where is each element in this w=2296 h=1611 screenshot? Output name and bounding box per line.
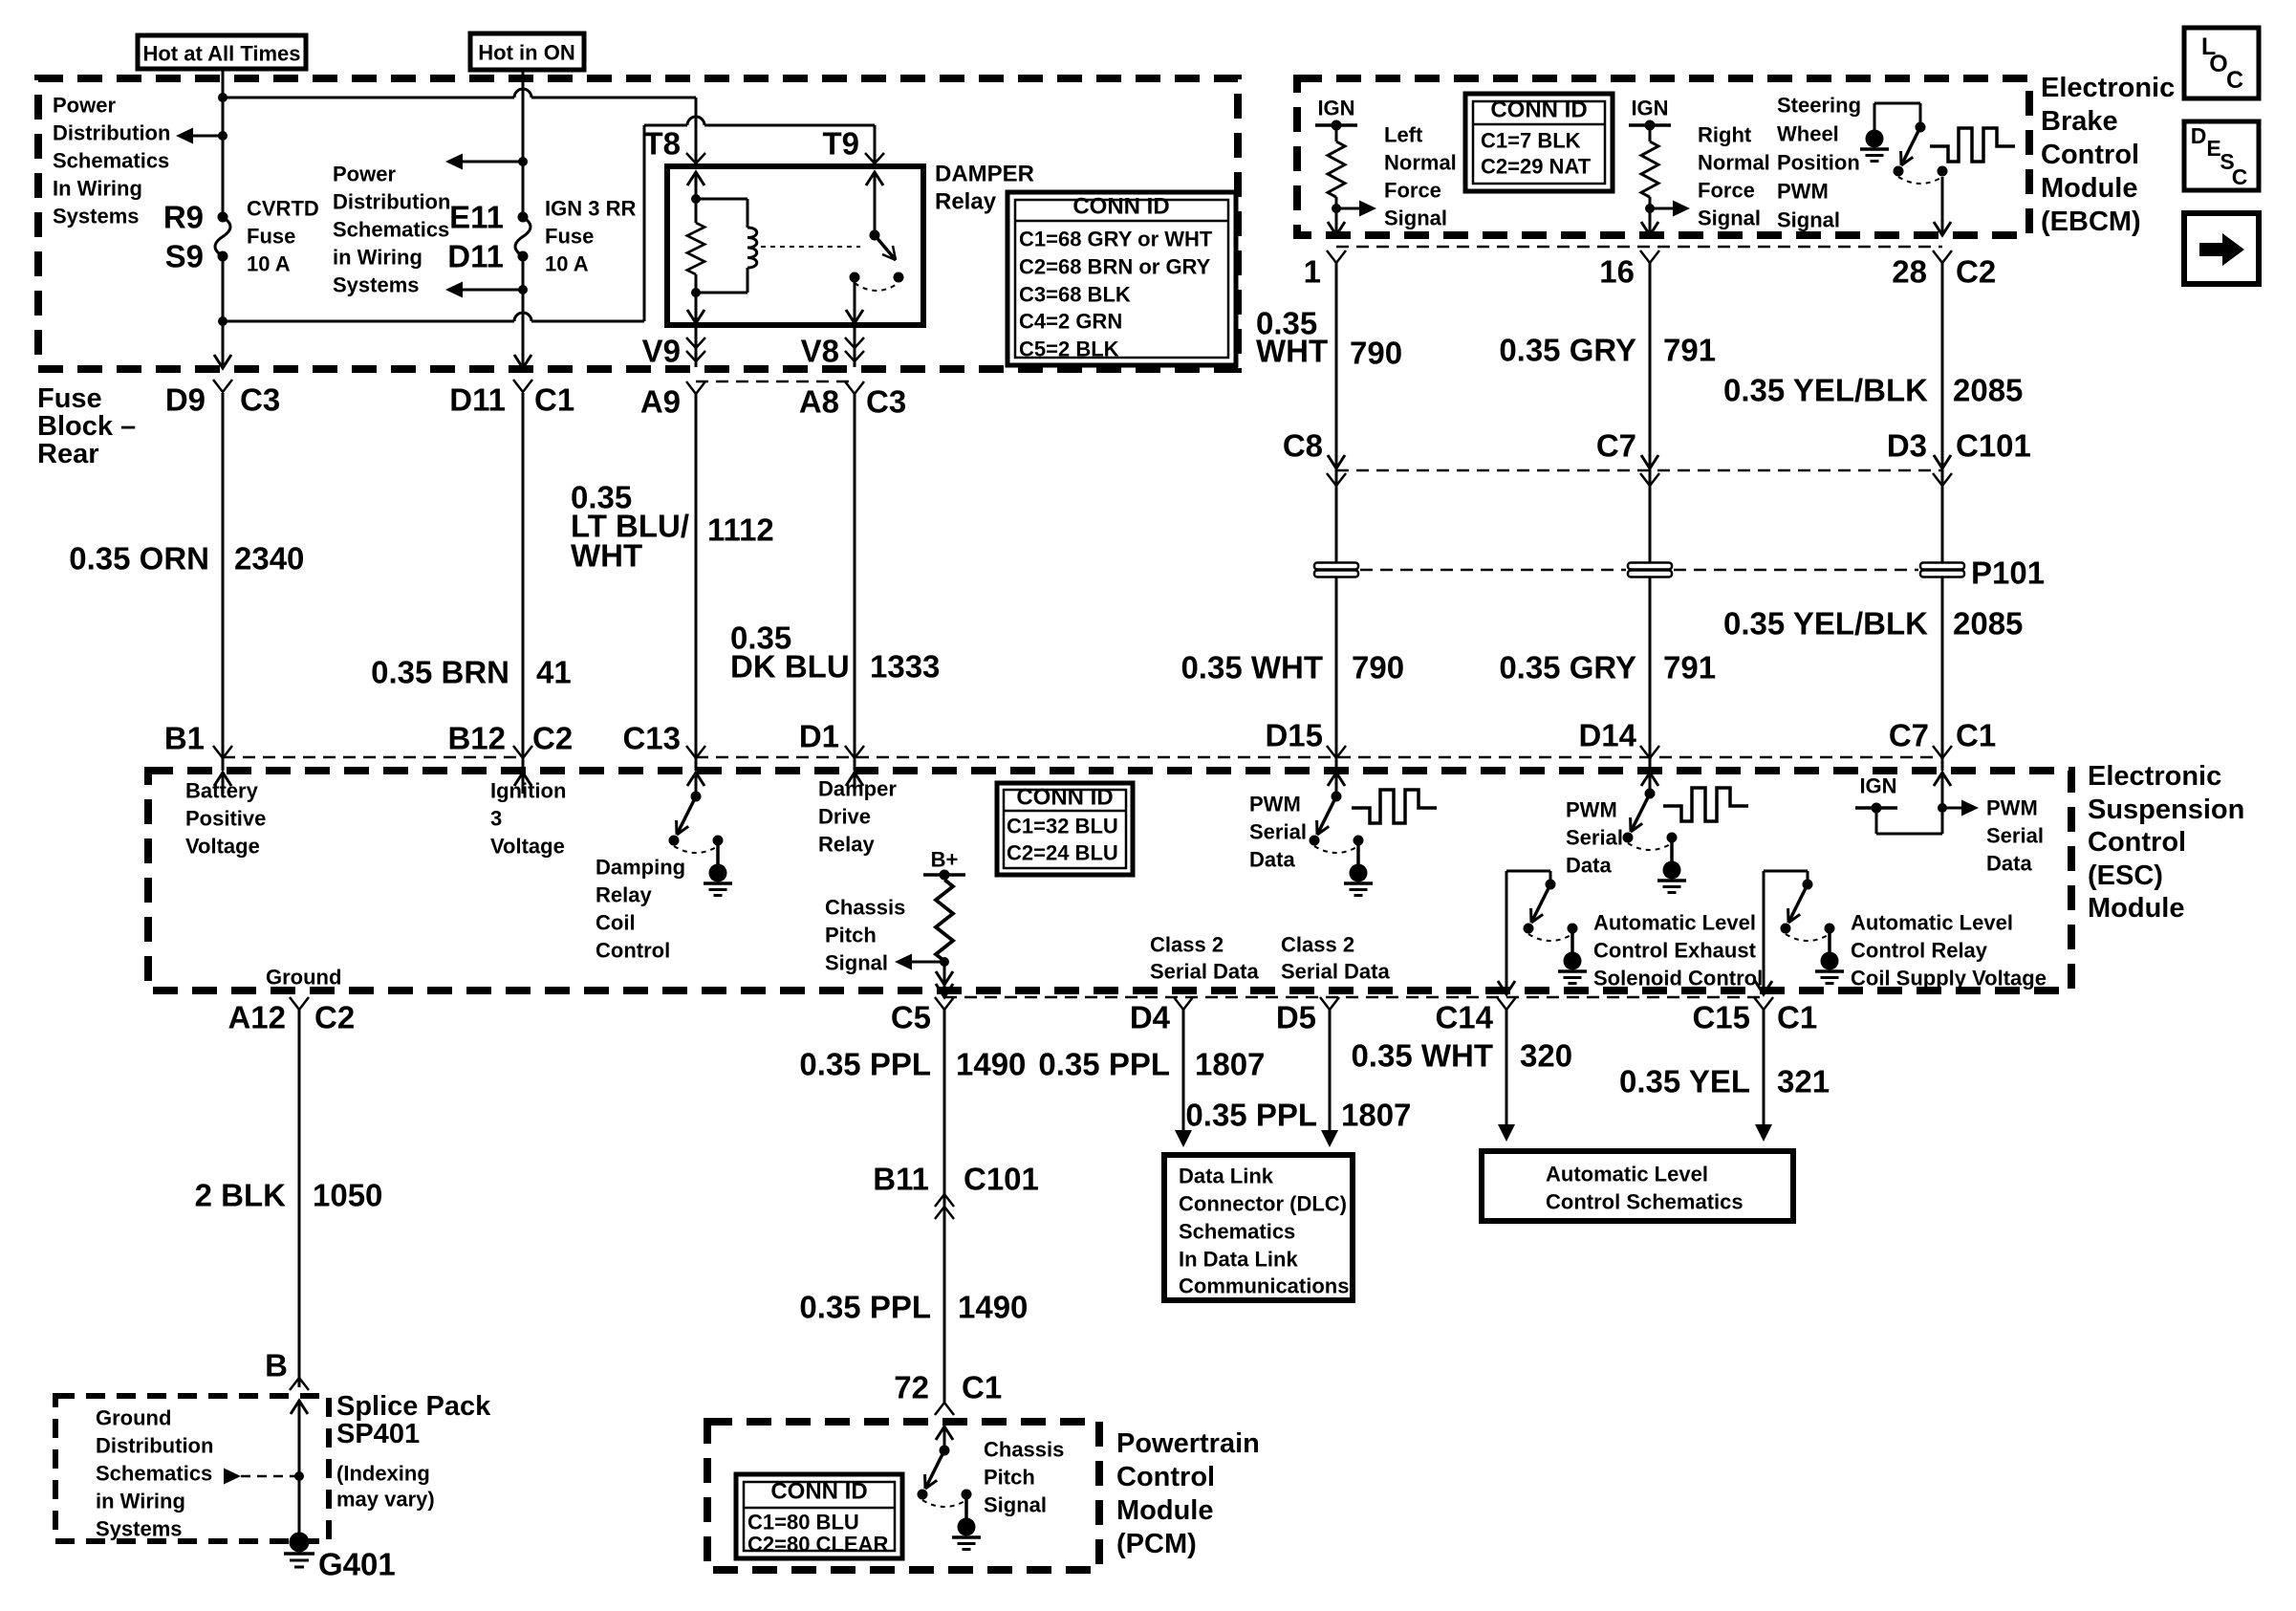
svg-text:WHT: WHT	[571, 538, 642, 574]
svg-text:Signal: Signal	[825, 951, 888, 975]
svg-text:Signal: Signal	[1384, 207, 1447, 230]
svg-text:C2: C2	[1956, 254, 1996, 290]
svg-text:Damping: Damping	[596, 856, 685, 880]
wire 790 upper segment	[1335, 263, 1338, 771]
net IGN (right normal force)	[1629, 97, 1671, 131]
svg-text:IGN: IGN	[1859, 774, 1896, 798]
svg-text:Relay: Relay	[596, 883, 652, 907]
svg-text:790: 790	[1350, 336, 1402, 371]
signal arrow right PWM serial data out	[1942, 800, 1979, 816]
svg-text:0.35 PPL: 0.35 PPL	[1038, 1047, 1170, 1082]
svg-text:Drive: Drive	[818, 805, 871, 829]
wire label 0.35 YEL/BLK 2085 (lower)	[1723, 606, 2023, 642]
module label Electronic Suspension Control (ESC) Module	[2088, 761, 2244, 924]
waveform PWM (D15)	[1352, 790, 1437, 823]
svg-text:0.35 YEL/BLK: 0.35 YEL/BLK	[1723, 373, 1928, 408]
svg-text:Module: Module	[2041, 173, 2138, 204]
svg-text:(PCM): (PCM)	[1116, 1529, 1197, 1559]
svg-text:Schematics: Schematics	[96, 1462, 212, 1486]
text Steering Wheel Position PWM Signal	[1777, 94, 1861, 232]
svg-text:C2: C2	[532, 721, 573, 756]
svg-text:C7: C7	[1596, 428, 1636, 464]
svg-text:PWM: PWM	[1249, 793, 1301, 816]
text Right Normal Force Signal	[1698, 123, 1770, 230]
connector V8 double chevron	[845, 337, 864, 361]
svg-text:C1: C1	[1777, 1000, 1817, 1035]
resistor left normal force sensor	[1328, 125, 1345, 235]
svg-text:WHT: WHT	[1256, 334, 1328, 369]
connector C13	[622, 721, 705, 759]
wire label 0.35 GRY 791 (lower)	[1499, 650, 1716, 686]
text Ground Distribution Schematics in Wiring Systems	[96, 1406, 213, 1541]
svg-text:Force: Force	[1698, 179, 1755, 203]
svg-text:C1=68 GRY or WHT: C1=68 GRY or WHT	[1019, 228, 1213, 251]
wire 1807 (D4 class 2 serial data)	[1175, 1009, 1192, 1147]
wire 1050 ground	[298, 1009, 301, 1387]
svg-text:Distribution: Distribution	[53, 121, 170, 145]
connector C5	[891, 997, 954, 1035]
connector C15 / C1	[1692, 997, 1817, 1035]
svg-text:Position: Position	[1777, 151, 1860, 175]
svg-text:DAMPER: DAMPER	[935, 162, 1034, 187]
svg-text:Class 2: Class 2	[1150, 933, 1224, 957]
svg-text:Module: Module	[1116, 1495, 1214, 1526]
text power distribution schematics (left block)	[53, 94, 170, 229]
module label Fuse Block - Rear	[37, 383, 136, 469]
relay coil input arrow (T8 side)	[687, 172, 704, 223]
connector 72 / C1 (PCM)	[894, 1370, 1002, 1416]
svg-text:may vary): may vary)	[336, 1488, 435, 1512]
svg-text:10 A: 10 A	[247, 252, 291, 276]
wire V8 segment	[854, 325, 856, 367]
text PWM Serial Data (D14)	[1566, 798, 1623, 878]
wire 1490 upper (chassis pitch to PCM)	[943, 1009, 946, 1403]
wire IGN3RR output down to fuse block exit	[514, 256, 531, 368]
connector D1	[799, 719, 864, 759]
text Chassis Pitch Signal (PCM)	[984, 1438, 1064, 1517]
icon box LOC	[2184, 28, 2259, 98]
wire CVRTD output down to fuse block exit	[214, 256, 231, 368]
svg-text:Pitch: Pitch	[984, 1466, 1035, 1490]
svg-text:C101: C101	[964, 1162, 1039, 1197]
svg-text:Hot at All Times: Hot at All Times	[142, 42, 300, 66]
svg-text:C2=29 NAT: C2=29 NAT	[1481, 155, 1592, 179]
connector V9 double chevron	[686, 337, 705, 361]
connector D4	[1130, 997, 1193, 1035]
svg-text:Serial: Serial	[1566, 826, 1623, 850]
svg-text:C14: C14	[1435, 1000, 1493, 1035]
label box "Hot in ON"	[470, 33, 584, 70]
svg-text:16: 16	[1599, 254, 1635, 290]
text Damping Relay Coil Control	[596, 856, 685, 963]
wire label 0.35 PPL 1490 (upper)	[799, 1047, 1026, 1082]
connector id table (damper relay)	[1007, 192, 1236, 365]
svg-text:Schematics: Schematics	[1179, 1220, 1295, 1244]
svg-text:V9: V9	[642, 334, 681, 369]
svg-text:C15: C15	[1692, 1000, 1750, 1035]
icon box right-arrow	[2184, 213, 2259, 284]
svg-text:CONN ID: CONN ID	[1072, 194, 1169, 220]
switch chassis pitch signal (PCM) with ground	[918, 1446, 982, 1550]
svg-text:C2: C2	[314, 1000, 355, 1035]
svg-text:Power: Power	[53, 94, 116, 118]
grommet P101 dashed link	[1360, 569, 1918, 572]
svg-text:Suspension: Suspension	[2088, 795, 2244, 825]
connector C101 dashed line	[1336, 469, 1942, 472]
svg-text:C3=68 BLK: C3=68 BLK	[1019, 283, 1131, 307]
svg-text:321: 321	[1777, 1064, 1830, 1099]
svg-text:Automatic Level: Automatic Level	[1593, 911, 1756, 935]
svg-text:2 BLK: 2 BLK	[195, 1178, 287, 1213]
svg-text:Electronic: Electronic	[2088, 761, 2221, 792]
svg-text:(ESC): (ESC)	[2088, 860, 2163, 891]
signal arrow right (left normal force)	[1336, 201, 1376, 217]
svg-text:D9: D9	[165, 382, 206, 418]
wire IGN elbow to C7 output	[1876, 772, 1951, 834]
svg-text:A9: A9	[640, 384, 681, 420]
relay resistor (parallel with coil)	[687, 223, 704, 297]
svg-text:1333: 1333	[870, 649, 940, 685]
connector B (splice pack)	[265, 1348, 309, 1391]
svg-text:Normal: Normal	[1384, 151, 1457, 175]
ground (steering wheel position sensor)	[1860, 103, 1920, 162]
svg-text:D11: D11	[447, 239, 504, 274]
svg-text:28: 28	[1892, 254, 1927, 290]
text PWM Serial Data (output)	[1986, 796, 2044, 876]
signal arrow right (right normal force)	[1650, 201, 1690, 217]
text Class 2 Serial Data (D5)	[1281, 933, 1390, 984]
wire 791 upper segment	[1649, 263, 1652, 771]
svg-text:C2=80 CLEAR: C2=80 CLEAR	[747, 1533, 888, 1557]
relay switch contact (T9 side)	[850, 172, 904, 291]
svg-text:C: C	[2226, 67, 2243, 94]
svg-text:Schematics: Schematics	[53, 149, 169, 173]
wire label 2 BLK 1050	[195, 1178, 383, 1213]
relay coil output arrow to V9	[687, 293, 704, 323]
svg-text:Block –: Block –	[37, 411, 136, 442]
connector A12 / C2 (ground)	[227, 997, 355, 1035]
svg-text:Powertrain: Powertrain	[1116, 1428, 1260, 1459]
wire label 0.35 BRN 41	[371, 655, 572, 690]
svg-text:Communications: Communications	[1179, 1274, 1349, 1298]
waveform PWM (D14)	[1663, 788, 1748, 821]
svg-text:Fuse: Fuse	[37, 383, 102, 414]
connector pin 16	[1599, 250, 1659, 290]
signal arrow left chassis pitch	[895, 954, 944, 970]
connector D15	[1265, 718, 1346, 759]
svg-text:C: C	[2232, 164, 2248, 189]
svg-text:Systems: Systems	[96, 1517, 183, 1541]
svg-text:D4: D4	[1130, 1000, 1171, 1035]
svg-text:Serial: Serial	[1986, 824, 2044, 848]
connector bracket dashed EBCM C2	[1336, 246, 1942, 249]
connector C8 at C101	[1283, 428, 1346, 487]
svg-text:3: 3	[490, 807, 502, 831]
svg-text:IGN: IGN	[1317, 97, 1354, 120]
wire T9 drop	[874, 125, 877, 166]
svg-text:C1=80 BLU: C1=80 BLU	[747, 1511, 859, 1535]
svg-text:C101: C101	[1956, 428, 2031, 464]
svg-text:Signal: Signal	[1777, 208, 1840, 232]
wire 1112 (damping relay coil control)	[695, 393, 698, 771]
svg-text:Signal: Signal	[1698, 207, 1761, 230]
svg-text:1112: 1112	[707, 512, 774, 548]
svg-text:T8: T8	[643, 126, 681, 162]
svg-text:(EBCM): (EBCM)	[2041, 207, 2141, 237]
net IGN (ESC pwm serial out)	[1855, 774, 1897, 814]
svg-text:1807: 1807	[1195, 1047, 1265, 1082]
wire 2085 upper segment	[1941, 263, 1944, 771]
connector pin 1	[1304, 250, 1346, 290]
icon box DESC	[2184, 121, 2259, 190]
svg-text:O: O	[2209, 51, 2227, 77]
svg-text:C1: C1	[962, 1370, 1002, 1405]
svg-text:Positive: Positive	[185, 807, 266, 831]
svg-text:SP401: SP401	[336, 1419, 420, 1449]
svg-text:Electronic: Electronic	[2041, 73, 2175, 103]
svg-text:Data: Data	[1249, 848, 1295, 872]
switch ALC relay coil supply with ground	[1781, 880, 1845, 984]
svg-text:Schematics: Schematics	[333, 218, 449, 242]
svg-text:Control: Control	[596, 939, 670, 963]
text PWM Serial Data (D15)	[1249, 793, 1307, 872]
svg-text:Voltage: Voltage	[185, 835, 260, 859]
svg-text:S9: S9	[165, 239, 204, 274]
svg-text:0.35 GRY: 0.35 GRY	[1499, 333, 1636, 368]
svg-text:Power: Power	[333, 163, 396, 186]
connector D14	[1578, 718, 1659, 759]
svg-text:Wheel: Wheel	[1777, 122, 1839, 146]
wire 320 (C14 ALC exhaust)	[1498, 1009, 1515, 1142]
svg-text:D1: D1	[799, 719, 839, 754]
resistor chassis pitch pull-up	[936, 880, 953, 996]
connector C7 at C101	[1596, 428, 1659, 487]
connector id table (EBCM)	[1465, 94, 1613, 191]
svg-text:Control: Control	[2088, 827, 2186, 858]
svg-text:72: 72	[894, 1370, 929, 1405]
svg-text:Automatic Level: Automatic Level	[1546, 1163, 1708, 1186]
wire label 0.35 LT BLU/WHT 1112	[571, 480, 774, 574]
svg-text:Coil: Coil	[596, 911, 636, 935]
wire label 0.35 WHT 790 (upper)	[1256, 306, 1402, 371]
svg-text:0.35 PPL: 0.35 PPL	[1185, 1098, 1317, 1133]
svg-text:C3: C3	[240, 382, 280, 418]
svg-text:10 A: 10 A	[545, 252, 589, 276]
wire branch to T9 (right horizontal at y336, up x674, right y131)	[223, 117, 875, 321]
switch steering wheel position sensor	[1894, 122, 1948, 185]
svg-text:in Wiring: in Wiring	[96, 1490, 185, 1513]
svg-text:IGN 3 RR: IGN 3 RR	[545, 197, 636, 221]
svg-text:Solenoid Control: Solenoid Control	[1593, 967, 1763, 991]
svg-text:Serial Data: Serial Data	[1281, 960, 1390, 984]
wire branch arrow to power distribution (upper)	[445, 154, 523, 170]
svg-text:in Wiring: in Wiring	[333, 246, 422, 270]
svg-text:IGN: IGN	[1631, 97, 1668, 120]
svg-text:PWM: PWM	[1986, 796, 2038, 820]
svg-text:Hot in ON: Hot in ON	[478, 41, 574, 65]
wire 1333 (damper drive relay)	[854, 393, 856, 771]
svg-text:Control: Control	[2041, 140, 2139, 170]
svg-text:Damper: Damper	[818, 777, 897, 801]
svg-text:A8: A8	[799, 384, 839, 420]
text Chassis Pitch Signal (ESC)	[825, 896, 905, 975]
svg-text:P101: P101	[1971, 555, 2045, 591]
svg-text:DK BLU: DK BLU	[730, 649, 850, 685]
wire label 1807 (D4)	[1038, 1047, 1265, 1082]
svg-text:PWM: PWM	[1566, 798, 1617, 822]
svg-text:PWM: PWM	[1777, 180, 1829, 204]
svg-text:1807: 1807	[1341, 1098, 1411, 1133]
connector bracket dashed (C13..C7 = ESC C1)	[696, 756, 1942, 759]
relay contact output arrow to V8	[846, 277, 863, 323]
wire V9 segment	[695, 325, 698, 367]
text Left Normal Force Signal	[1384, 123, 1457, 230]
svg-text:B1: B1	[164, 721, 205, 756]
svg-text:2340: 2340	[234, 541, 304, 577]
svg-text:Systems: Systems	[53, 205, 140, 229]
label box "Hot at All Times"	[138, 35, 306, 69]
svg-text:D5: D5	[1276, 1000, 1316, 1035]
svg-text:(Indexing: (Indexing	[336, 1462, 430, 1486]
connector id table (ESC)	[997, 783, 1133, 875]
svg-text:CONN ID: CONN ID	[1490, 98, 1587, 123]
ESC input arrow ignition 3	[514, 772, 531, 794]
wire 2340 (battery feed to ESC)	[222, 393, 225, 771]
svg-text:0.35 PPL: 0.35 PPL	[799, 1047, 931, 1082]
svg-text:Connector (DLC): Connector (DLC)	[1179, 1192, 1347, 1216]
wire label 0.35 WHT 320	[1351, 1038, 1572, 1074]
svg-text:B+: B+	[931, 848, 959, 872]
svg-text:Control Schematics: Control Schematics	[1546, 1190, 1744, 1214]
svg-text:B11: B11	[873, 1162, 929, 1197]
connector B12/C2	[447, 721, 573, 759]
svg-text:Coil Supply Voltage: Coil Supply Voltage	[1851, 967, 2047, 991]
connector A9	[640, 381, 705, 420]
pin 16 exit arrow	[1641, 222, 1658, 235]
svg-text:Control Exhaust: Control Exhaust	[1593, 939, 1757, 963]
wire label 0.35 YEL/BLK 2085 (upper)	[1723, 373, 2023, 408]
svg-text:Right: Right	[1698, 123, 1752, 147]
wire into splice pack	[291, 1400, 308, 1542]
svg-text:A12: A12	[227, 1000, 286, 1035]
connector pin 28 / C2	[1892, 250, 1996, 290]
switch D15 PWM serial data with ground	[1310, 792, 1374, 896]
connector bracket dashed (B1-B12 = ESC C2)	[223, 756, 523, 759]
svg-text:Signal: Signal	[984, 1493, 1047, 1517]
module U1 EBCM dashed box	[1297, 78, 2029, 235]
text Ignition 3 Voltage	[490, 779, 566, 859]
wire ALC relay coil supply elbow	[1755, 871, 1808, 994]
fuse IGN 3 RR (E11-D11)	[515, 212, 531, 262]
svg-text:Data: Data	[1986, 852, 2032, 876]
svg-text:CONN ID: CONN ID	[770, 1479, 867, 1505]
switch ALC exhaust solenoid control with ground	[1524, 880, 1588, 984]
svg-text:C2=24 BLU: C2=24 BLU	[1007, 841, 1118, 865]
svg-text:Chassis: Chassis	[825, 896, 905, 920]
svg-text:Serial Data: Serial Data	[1150, 960, 1259, 984]
svg-text:Left: Left	[1384, 123, 1423, 147]
wire 321 (C15 ALC relay)	[1755, 1009, 1772, 1142]
connector B11 / C101 (double chevron)	[873, 1162, 1039, 1220]
value label IGN 3 RR Fuse 10 A	[545, 197, 636, 276]
svg-text:C1: C1	[534, 382, 574, 418]
svg-text:D: D	[2191, 123, 2207, 148]
wire label 0.35 DK BLU 1333	[730, 620, 940, 685]
text Class 2 Serial Data (D4)	[1150, 933, 1259, 984]
svg-text:D11: D11	[449, 382, 506, 418]
wire label 0.35 PPL 1490 (lower)	[799, 1290, 1028, 1325]
svg-text:Ground: Ground	[266, 966, 341, 990]
svg-text:0.35 ORN: 0.35 ORN	[69, 541, 209, 577]
wire label 0.35 WHT 790 (lower)	[1180, 650, 1404, 686]
svg-text:Relay: Relay	[818, 833, 875, 857]
svg-text:Class 2: Class 2	[1281, 933, 1354, 957]
svg-text:CVRTD: CVRTD	[247, 197, 319, 221]
relay actuation dashed link	[761, 246, 860, 248]
wire 1807 (D5 class 2 serial data)	[1321, 1009, 1338, 1147]
svg-text:Pitch: Pitch	[825, 924, 877, 947]
svg-text:0.35 PPL: 0.35 PPL	[799, 1290, 931, 1325]
wire ALC exhaust solenoid driver elbow	[1498, 871, 1550, 994]
connector C14	[1435, 997, 1516, 1035]
ESC input arrow damping relay coil control	[687, 772, 704, 796]
svg-text:B12: B12	[447, 721, 506, 756]
wire hot at all times feed (x=233)	[222, 69, 225, 217]
svg-text:320: 320	[1520, 1038, 1572, 1074]
svg-text:1490: 1490	[956, 1047, 1026, 1082]
wire branch arrow to power distribution (lower)	[445, 282, 523, 298]
grommet at wire 791	[1628, 563, 1672, 577]
svg-text:C4=2 GRN: C4=2 GRN	[1019, 310, 1122, 334]
text Battery Positive Voltage	[185, 779, 266, 859]
PCM input arrow chassis pitch	[936, 1426, 953, 1450]
connector D3 / C101	[1887, 428, 2031, 487]
connector C7 / C1 (ESC)	[1889, 718, 1996, 759]
svg-text:In Wiring: In Wiring	[53, 177, 142, 201]
svg-text:Chassis: Chassis	[984, 1438, 1064, 1462]
switch D14 PWM serial data with ground	[1623, 789, 1687, 893]
svg-text:Normal: Normal	[1698, 151, 1770, 175]
ESC output arrow C5 (double chevron)	[936, 971, 953, 997]
connector bracket dashed ESC bottom C1	[944, 996, 1764, 999]
svg-text:790: 790	[1352, 650, 1404, 686]
svg-text:In Data Link: In Data Link	[1179, 1248, 1298, 1272]
module label Electronic Brake Control Module (EBCM)	[2041, 73, 2175, 237]
wire hot in ON feed (x=547)	[518, 69, 528, 217]
resistor right normal force sensor	[1641, 125, 1658, 235]
svg-text:C1=7 BLK: C1=7 BLK	[1481, 129, 1581, 153]
waveform PWM (steering)	[1930, 128, 2015, 162]
svg-text:D3: D3	[1887, 428, 1927, 464]
connector D9/C3 at fuse block output	[165, 380, 280, 418]
connector bracket dashed (A9-A8)	[696, 381, 855, 383]
wire hot-at-all-times to T8 (horizontal y102 with hump over x547)	[223, 89, 696, 166]
box Data Link Connector (DLC) Schematics	[1164, 1155, 1353, 1300]
grommet at wire 790	[1314, 563, 1358, 577]
svg-text:C1: C1	[1956, 718, 1996, 753]
connector B1	[164, 721, 232, 759]
svg-text:Force: Force	[1384, 179, 1441, 203]
svg-text:C1=32 BLU: C1=32 BLU	[1007, 815, 1118, 838]
svg-text:C3: C3	[866, 384, 906, 420]
svg-text:Systems: Systems	[333, 273, 420, 297]
svg-text:C7: C7	[1889, 718, 1929, 753]
svg-text:2085: 2085	[1953, 373, 2023, 408]
wire 41 (ignition 3 to ESC)	[522, 393, 525, 771]
node junction at top of CVRTD feed	[218, 93, 227, 102]
svg-text:E11: E11	[449, 200, 504, 235]
ESC input arrow D15 PWM serial data	[1328, 772, 1345, 796]
